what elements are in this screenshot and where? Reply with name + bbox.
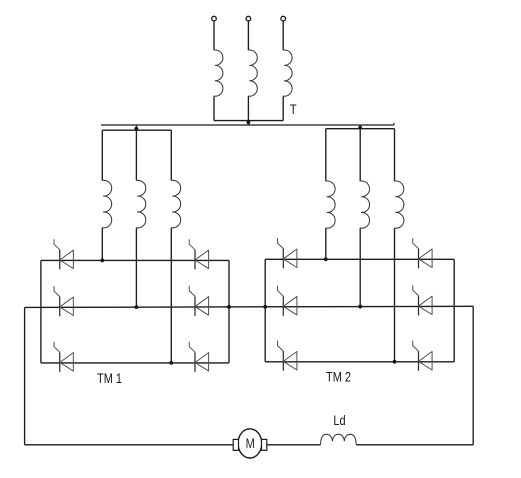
wire reactor L2 to TM1 phase input bbox=[135, 228, 137, 307]
motor M right brush bbox=[262, 439, 267, 450]
wire right bracket to anode reactor L4 bbox=[325, 129, 327, 181]
node TM2 phase 4 junction bbox=[324, 257, 328, 261]
wire bus to right bracket bbox=[359, 125, 361, 129]
anode reactor L5 bbox=[360, 181, 369, 228]
wire left bracket to anode reactor L3 bbox=[170, 130, 172, 180]
wire bus end tick bbox=[393, 123, 395, 125]
wire TM1 left edge bbox=[40, 260, 42, 363]
wire TM2 right edge bbox=[453, 259, 455, 362]
svg-text:TM 2: TM 2 bbox=[326, 369, 351, 384]
inductor Ld bbox=[321, 434, 357, 445]
wire left bracket to anode reactor L1 bbox=[101, 130, 103, 180]
thyristor VS6 (TM1) bbox=[194, 352, 196, 372]
terminal X1 bbox=[212, 16, 217, 21]
anode reactor L6 bbox=[395, 181, 404, 228]
node left bracket junction bbox=[135, 127, 139, 131]
wire reactor L6 to TM2 phase input bbox=[394, 229, 396, 362]
thyristor VS2 (TM1) bbox=[194, 250, 196, 270]
wire reactor L5 to TM2 phase input bbox=[359, 229, 361, 307]
node TM2 left edge on middle row bbox=[263, 305, 267, 309]
anode reactor L4 bbox=[326, 181, 335, 228]
wire TM2 output right drop bbox=[472, 306, 474, 445]
wire left secondary bracket bbox=[102, 129, 171, 131]
node TM1 phase 1 junction bbox=[100, 259, 104, 263]
node TM1 right edge on middle row bbox=[227, 305, 231, 309]
wire bottom left run bbox=[25, 444, 234, 446]
svg-text:T: T bbox=[290, 102, 297, 117]
motor M body bbox=[238, 429, 262, 458]
thyristor VS1 (TM1) bbox=[59, 250, 61, 270]
node TM2 phase 5 junction bbox=[358, 305, 362, 309]
wire TM1 right edge bbox=[228, 260, 230, 363]
wire terminal X1 to primary winding bbox=[213, 21, 215, 50]
transformer T primary winding 1 bbox=[214, 50, 223, 96]
wire TM2 top row bbox=[265, 258, 454, 260]
wire TM2 left edge bbox=[264, 259, 266, 362]
wire TM1 output left drop bbox=[24, 307, 26, 444]
node TM1 phase 2 junction bbox=[135, 305, 139, 309]
wire TM1 top row bbox=[41, 259, 229, 261]
motor M left brush bbox=[233, 439, 238, 450]
wire middle row (dc output bus) bbox=[25, 306, 474, 307]
wire bottom right run bbox=[356, 444, 473, 446]
thyristor VS11 (TM2) bbox=[282, 351, 284, 371]
wire left bracket to anode reactor L2 bbox=[135, 130, 137, 180]
transformer T primary winding 3 bbox=[283, 50, 292, 96]
anode reactor L1 bbox=[102, 180, 111, 228]
node star point junction bbox=[247, 120, 251, 124]
wire motor to Ld bbox=[267, 444, 321, 446]
wire TM2 bottom row bbox=[265, 361, 454, 363]
wire reactor L1 to TM1 phase input bbox=[101, 228, 103, 260]
terminal X2 bbox=[246, 16, 251, 21]
node TM1 phase 3 junction bbox=[169, 361, 173, 365]
wire right bracket to anode reactor L6 bbox=[394, 129, 396, 181]
wire TM1 bottom row bbox=[41, 362, 229, 364]
wire secondary bus bbox=[101, 124, 394, 126]
wire primary winding 1 to star bracket bbox=[213, 97, 215, 121]
wire right secondary bracket bbox=[326, 128, 395, 130]
wire reactor L4 to TM2 phase input bbox=[325, 229, 327, 260]
svg-text:Ld: Ld bbox=[333, 413, 345, 428]
wire terminal X3 to primary winding bbox=[282, 21, 284, 50]
svg-text:M: M bbox=[246, 436, 255, 451]
anode reactor L2 bbox=[136, 180, 145, 228]
anode reactor L3 bbox=[171, 180, 180, 228]
wire terminal X2 to primary winding bbox=[247, 21, 249, 50]
node right bracket junction bbox=[358, 126, 362, 130]
wire reactor L3 to TM1 phase input bbox=[170, 228, 172, 363]
terminal X3 bbox=[281, 16, 286, 21]
wire right bracket to anode reactor L5 bbox=[359, 129, 361, 181]
wire primary winding 2 to star bracket bbox=[247, 97, 249, 121]
wire primary winding 3 to star bracket bbox=[282, 97, 284, 121]
thyristor VS12 (TM2) bbox=[418, 351, 420, 371]
thyristor VS9 (TM2) bbox=[282, 296, 284, 316]
wire bus to left bracket bbox=[135, 125, 137, 130]
thyristor VS3 (TM1) bbox=[59, 297, 61, 317]
thyristor VS4 (TM1) bbox=[194, 296, 196, 316]
transformer T primary winding 2 bbox=[248, 50, 257, 96]
svg-text:TM 1: TM 1 bbox=[97, 371, 122, 386]
thyristor VS10 (TM2) bbox=[418, 296, 420, 316]
wire star point to bus bbox=[247, 121, 249, 125]
wire primary star bracket bbox=[214, 120, 283, 122]
thyristor VS7 (TM2) bbox=[282, 249, 284, 269]
thyristor VS5 (TM1) bbox=[59, 352, 61, 372]
thyristor VS8 (TM2) bbox=[418, 249, 420, 269]
node TM2 phase 6 junction bbox=[393, 360, 397, 364]
